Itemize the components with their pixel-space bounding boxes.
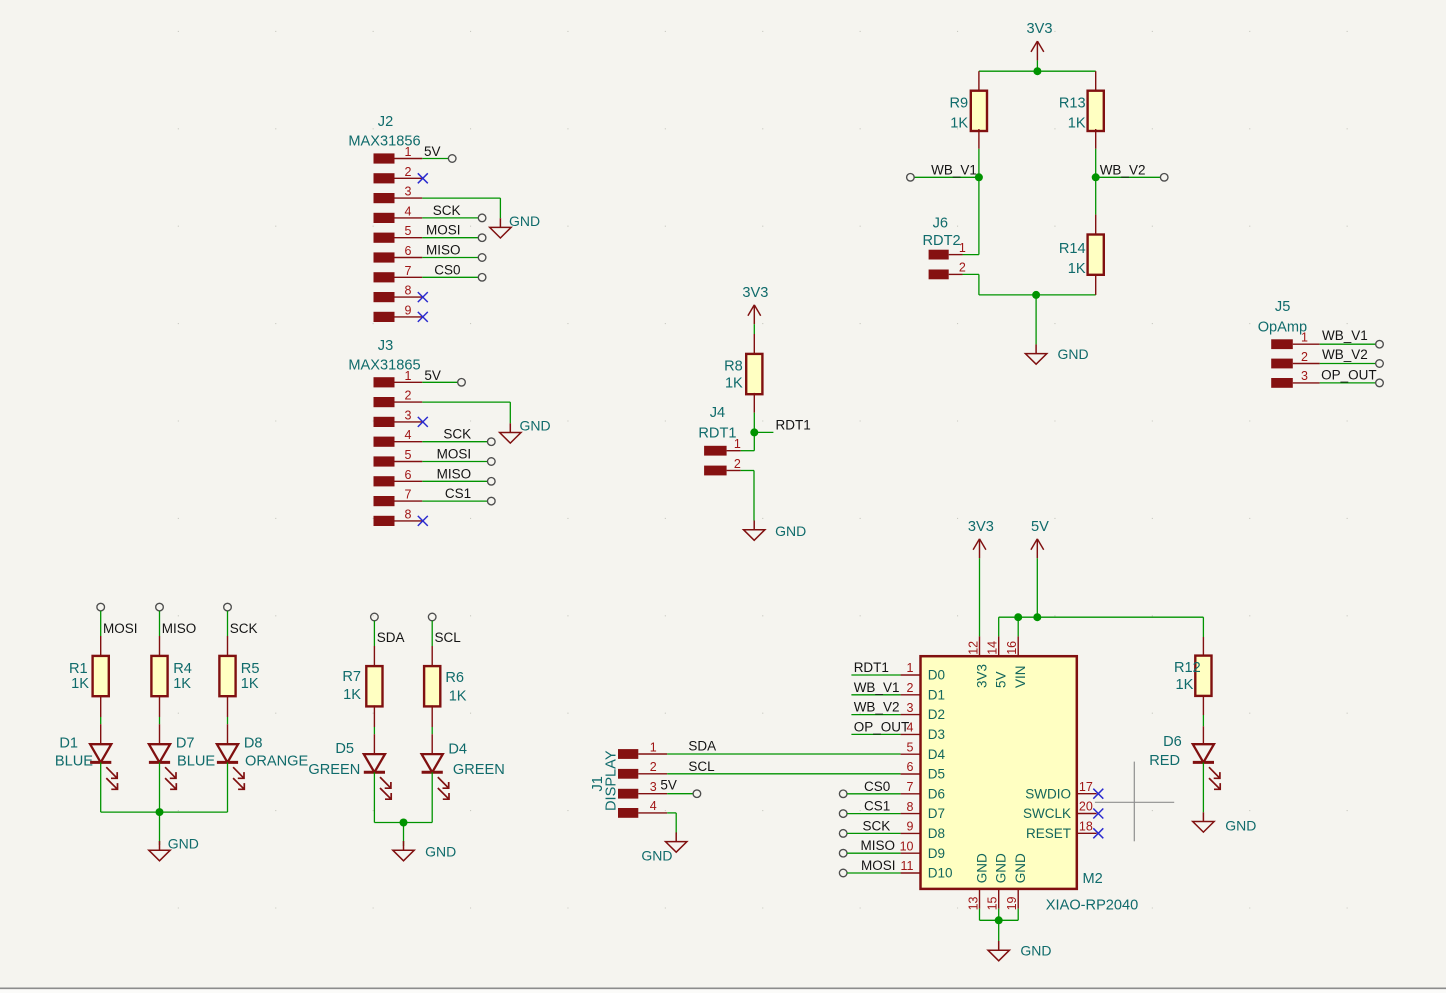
wire bridge top rail bbox=[979, 70, 1096, 72]
resistor R6 bbox=[424, 646, 467, 727]
svg-text:R1: R1 bbox=[69, 661, 88, 677]
svg-text:3: 3 bbox=[405, 408, 412, 422]
wire D4 to GND rail bbox=[431, 772, 433, 822]
svg-text:3V3: 3V3 bbox=[1027, 21, 1053, 37]
svg-text:1K: 1K bbox=[725, 375, 743, 391]
ground GND (J4) bbox=[744, 521, 807, 541]
LED D6 RED bbox=[1149, 726, 1220, 789]
wire R13 to WB_V2 bbox=[1095, 149, 1097, 178]
wire WB_V2 stub bbox=[1096, 176, 1161, 178]
LED D5 GREEN bbox=[308, 734, 391, 799]
wire 5V rail to R12 bbox=[999, 617, 1204, 636]
svg-text:M2: M2 bbox=[1083, 871, 1103, 887]
svg-text:1K: 1K bbox=[173, 676, 191, 692]
unconnected end MOSI stub bbox=[97, 603, 105, 611]
J6 pin2 wire to bottom rail bbox=[949, 274, 979, 295]
unconnected end J3 pin1 bbox=[458, 379, 466, 387]
J5 pin3 wire OP_OUT bbox=[1293, 382, 1376, 384]
svg-text:MOSI: MOSI bbox=[426, 223, 461, 238]
ground GND (D6) bbox=[1193, 812, 1257, 833]
svg-text:GND: GND bbox=[520, 418, 551, 434]
connector J5 bbox=[1258, 299, 1308, 388]
wire D1 to GND rail bbox=[100, 762, 102, 812]
svg-text:GND: GND bbox=[641, 848, 672, 864]
svg-text:GREEN: GREEN bbox=[308, 762, 360, 778]
svg-text:SCK: SCK bbox=[863, 818, 891, 833]
svg-text:MISO: MISO bbox=[437, 466, 472, 481]
svg-text:GND: GND bbox=[994, 853, 1009, 883]
svg-text:5V: 5V bbox=[424, 144, 441, 159]
wire J2 pin5 MOSI bbox=[422, 237, 478, 239]
svg-text:R9: R9 bbox=[949, 96, 968, 112]
wire MOSI stub bbox=[100, 611, 102, 636]
unconnected end J2 pin4 bbox=[478, 214, 486, 222]
svg-text:RDT1: RDT1 bbox=[854, 660, 889, 675]
svg-text:GND: GND bbox=[168, 836, 199, 852]
junction bridge bottom bbox=[1032, 291, 1040, 299]
wire LED GND rail 2 bbox=[374, 822, 432, 824]
svg-text:SWCLK: SWCLK bbox=[1023, 806, 1071, 821]
wire MISO stub bbox=[159, 611, 161, 636]
svg-text:1K: 1K bbox=[71, 676, 89, 692]
svg-text:14: 14 bbox=[986, 641, 1000, 655]
svg-text:13: 13 bbox=[967, 896, 981, 910]
svg-text:CS1: CS1 bbox=[445, 486, 471, 501]
svg-text:2: 2 bbox=[650, 760, 657, 774]
sheet border bottom bbox=[0, 988, 1446, 993]
power 3V3 (M2) bbox=[968, 519, 994, 558]
wire CS0 stub M2.D6 bbox=[839, 790, 900, 798]
resistor R8 bbox=[724, 334, 762, 413]
svg-text:RDT2: RDT2 bbox=[923, 233, 961, 249]
wire J2 pin6 MISO bbox=[422, 257, 478, 259]
unconnected end SDA stub bbox=[371, 613, 379, 621]
svg-text:2: 2 bbox=[1301, 350, 1308, 364]
M2 bottom pins 13 15 19 GND bbox=[967, 853, 1029, 910]
J2 pin stubs bbox=[395, 159, 423, 317]
svg-text:4: 4 bbox=[405, 204, 412, 218]
no-connect J3 pin8 bbox=[418, 516, 428, 526]
svg-text:R7: R7 bbox=[342, 669, 361, 685]
unconnected end SCL stub bbox=[428, 613, 436, 621]
junction M2 GND bbox=[995, 916, 1003, 924]
svg-text:MAX31856: MAX31856 bbox=[348, 134, 420, 150]
power 5V (M2) bbox=[1031, 519, 1049, 558]
svg-text:RDT1: RDT1 bbox=[776, 418, 811, 433]
wire J3 pin2 to GND bbox=[422, 402, 510, 423]
svg-text:WB_V1: WB_V1 bbox=[931, 162, 977, 177]
wire SCK stub bbox=[227, 611, 229, 636]
wire J2 pin7 CS0 bbox=[422, 276, 478, 278]
resistor R5 bbox=[219, 636, 259, 717]
svg-text:D1: D1 bbox=[59, 736, 78, 752]
unconnected end J2 pin7 bbox=[478, 274, 486, 282]
cursor crosshair bbox=[1095, 762, 1174, 842]
wire WB_V1 down to J6 pin1 bbox=[978, 177, 980, 254]
svg-text:GND: GND bbox=[775, 523, 806, 539]
svg-text:SDA: SDA bbox=[377, 630, 405, 645]
unconnected end J3 pin7 bbox=[488, 497, 496, 505]
svg-text:9: 9 bbox=[907, 820, 914, 834]
connector J3 bbox=[348, 338, 420, 526]
svg-text:WB_V2: WB_V2 bbox=[1322, 347, 1368, 362]
ground GND (M2) bbox=[988, 941, 1052, 961]
svg-text:D0: D0 bbox=[928, 668, 945, 683]
wire MISO stub M2.D9 bbox=[839, 849, 900, 857]
svg-text:R6: R6 bbox=[445, 670, 464, 686]
LED D8 ORANGE bbox=[217, 724, 309, 789]
J4 pin stubs bbox=[727, 451, 741, 471]
MCU module M2 XIAO-RP2040 body bbox=[921, 656, 1139, 913]
wire R6 to D4 bbox=[431, 727, 433, 734]
wire D8 to GND rail bbox=[227, 762, 229, 812]
svg-text:6: 6 bbox=[405, 468, 412, 482]
svg-text:MOSI: MOSI bbox=[861, 858, 896, 873]
svg-text:SWDIO: SWDIO bbox=[1025, 786, 1071, 801]
svg-text:8: 8 bbox=[405, 507, 412, 521]
wire J3 pin7 CS1 bbox=[422, 500, 487, 502]
wire MOSI stub M2.D10 bbox=[839, 869, 900, 877]
svg-text:8: 8 bbox=[907, 800, 914, 814]
svg-text:5V: 5V bbox=[994, 671, 1009, 688]
svg-text:D8: D8 bbox=[244, 736, 263, 752]
svg-text:RESET: RESET bbox=[1026, 826, 1071, 841]
J4 pin2 wire to GND bbox=[741, 471, 754, 521]
svg-text:MOSI: MOSI bbox=[437, 447, 472, 462]
wire J2 pin4 SCK bbox=[422, 217, 478, 219]
unconnected end WB_V2 bbox=[1160, 174, 1168, 182]
svg-text:3V3: 3V3 bbox=[968, 519, 994, 535]
svg-text:5: 5 bbox=[405, 224, 412, 238]
svg-text:DISPLAY: DISPLAY bbox=[603, 750, 619, 811]
svg-text:CS0: CS0 bbox=[434, 262, 460, 277]
svg-text:6: 6 bbox=[907, 760, 914, 774]
svg-text:R14: R14 bbox=[1059, 241, 1086, 257]
wire bridge bottom rail bbox=[979, 294, 1096, 296]
ground GND (D1 D7 D8) bbox=[149, 836, 199, 861]
svg-text:R12: R12 bbox=[1174, 660, 1201, 676]
svg-text:J6: J6 bbox=[933, 216, 948, 232]
wire M2 pin16 to rail bbox=[1017, 617, 1019, 636]
resistor R7 bbox=[342, 646, 382, 727]
no-connect J3 pin3 bbox=[418, 417, 428, 427]
wire RDT1 label stub bbox=[754, 431, 773, 433]
junction LED GND rail 2 bbox=[400, 819, 408, 827]
svg-text:D6: D6 bbox=[1163, 734, 1182, 750]
M2 right pins SWDIO SWCLK RESET bbox=[1023, 780, 1097, 841]
wire CS1 stub M2.D7 bbox=[839, 810, 900, 818]
svg-text:1K: 1K bbox=[241, 676, 259, 692]
svg-text:5V: 5V bbox=[424, 368, 441, 383]
wire rail to GND (LEDs) bbox=[159, 812, 161, 845]
svg-text:7: 7 bbox=[405, 488, 412, 502]
J1 pin2 wire SCL to M2.D5 bbox=[638, 773, 900, 775]
wire bottom rail to GND bbox=[1035, 295, 1037, 345]
svg-text:SCK: SCK bbox=[443, 427, 471, 442]
svg-text:MISO: MISO bbox=[426, 243, 461, 258]
svg-text:D1: D1 bbox=[928, 687, 945, 702]
svg-text:GREEN: GREEN bbox=[453, 762, 505, 778]
ground GND (D5 D4) bbox=[393, 841, 456, 861]
wire R9 to WB_V1 bbox=[978, 149, 980, 178]
ground GND (J3) bbox=[500, 418, 551, 443]
resistor R4 bbox=[151, 636, 191, 717]
M2 top pins 12 14 16 bbox=[967, 636, 1029, 688]
wire rail2 to GND bbox=[403, 823, 405, 847]
svg-text:CS1: CS1 bbox=[864, 799, 890, 814]
svg-text:3: 3 bbox=[1301, 369, 1308, 383]
no-connect RESET bbox=[1093, 828, 1103, 838]
unconnected end SCK stub bbox=[224, 603, 232, 611]
svg-text:D4: D4 bbox=[448, 742, 467, 758]
J3 pin stubs bbox=[395, 382, 423, 521]
J1 pin4 wire to GND bbox=[638, 813, 676, 834]
svg-text:BLUE: BLUE bbox=[177, 753, 215, 769]
resistor R1 bbox=[69, 636, 109, 717]
wire OP_OUT to M2.D3 bbox=[851, 733, 900, 735]
no-connect SWCLK bbox=[1093, 809, 1103, 819]
unconnected end J5 pin2 bbox=[1376, 360, 1384, 368]
svg-text:1: 1 bbox=[734, 437, 741, 451]
svg-text:MAX31865: MAX31865 bbox=[348, 357, 420, 373]
power 3V3 (bridge) bbox=[1027, 21, 1053, 71]
svg-text:1K: 1K bbox=[1068, 261, 1086, 277]
ground GND (J2) bbox=[490, 213, 540, 238]
svg-text:MISO: MISO bbox=[162, 621, 197, 636]
no-connect J2 pin9 bbox=[418, 312, 428, 322]
svg-text:SCK: SCK bbox=[230, 621, 258, 636]
wire 5V down to rail bbox=[1036, 558, 1038, 617]
svg-text:7: 7 bbox=[907, 780, 914, 794]
svg-text:1: 1 bbox=[1301, 331, 1308, 345]
wire WB_V1 to M2.D1 bbox=[851, 694, 900, 696]
svg-text:2: 2 bbox=[405, 389, 412, 403]
svg-text:3: 3 bbox=[650, 780, 657, 794]
svg-text:2: 2 bbox=[907, 681, 914, 695]
LED D4 GREEN bbox=[422, 734, 505, 799]
unconnected end J3 pin5 bbox=[488, 458, 496, 466]
wire D5 to GND rail bbox=[373, 772, 375, 822]
connector J1 DISPLAY bbox=[590, 740, 657, 818]
svg-text:SCL: SCL bbox=[435, 630, 462, 645]
wire SCL stub bbox=[431, 621, 433, 646]
unconnected end J2 pin6 bbox=[478, 254, 486, 262]
svg-text:D5: D5 bbox=[335, 741, 354, 757]
svg-text:GND: GND bbox=[1013, 853, 1028, 883]
svg-text:D10: D10 bbox=[928, 866, 953, 881]
svg-text:2: 2 bbox=[734, 457, 741, 471]
svg-text:6: 6 bbox=[405, 244, 412, 258]
J1 pin3 wire 5V bbox=[638, 793, 693, 795]
wire R7 to D5 bbox=[373, 727, 375, 734]
svg-text:2: 2 bbox=[959, 261, 966, 275]
junction RDT1 node bbox=[750, 428, 758, 436]
wire R5 to D8 bbox=[227, 717, 229, 724]
wire R4 to D7 bbox=[159, 717, 161, 724]
junction rail pin16 bbox=[1014, 613, 1022, 621]
resistor R14 bbox=[1059, 177, 1104, 295]
unconnected end J2 pin5 bbox=[478, 234, 486, 242]
svg-text:D7: D7 bbox=[176, 736, 195, 752]
wire rail to R12 bbox=[1202, 617, 1204, 637]
svg-text:1K: 1K bbox=[950, 116, 968, 132]
svg-text:9: 9 bbox=[405, 303, 412, 317]
wire J2 pin1 5V bbox=[422, 158, 448, 160]
svg-text:16: 16 bbox=[1005, 641, 1019, 655]
wire SCK stub M2.D8 bbox=[839, 830, 900, 838]
svg-text:1K: 1K bbox=[1068, 116, 1086, 132]
svg-text:17: 17 bbox=[1079, 780, 1093, 794]
svg-text:3: 3 bbox=[405, 185, 412, 199]
svg-text:R8: R8 bbox=[724, 358, 743, 374]
svg-text:15: 15 bbox=[986, 896, 1000, 910]
resistor R13 bbox=[1059, 71, 1104, 149]
connector J2 bbox=[348, 114, 420, 322]
svg-text:8: 8 bbox=[405, 284, 412, 298]
unconnected end J2 pin1 bbox=[448, 155, 456, 163]
svg-text:1: 1 bbox=[959, 241, 966, 255]
J1 pin1 wire SDA to M2.D4 bbox=[638, 753, 900, 755]
svg-text:R5: R5 bbox=[241, 661, 260, 677]
svg-text:GND: GND bbox=[1225, 818, 1256, 834]
svg-text:RED: RED bbox=[1149, 753, 1180, 769]
svg-text:GND: GND bbox=[1058, 346, 1089, 362]
wire RDT1 to M2.D0 bbox=[851, 674, 900, 676]
svg-text:ORANGE: ORANGE bbox=[245, 753, 309, 769]
junction bridge top bbox=[1033, 67, 1041, 75]
svg-text:SCK: SCK bbox=[433, 203, 461, 218]
J6 pin1 wire bbox=[949, 254, 979, 256]
svg-text:R4: R4 bbox=[173, 661, 192, 677]
svg-text:D4: D4 bbox=[928, 747, 946, 762]
svg-text:3V3: 3V3 bbox=[742, 285, 768, 301]
svg-text:11: 11 bbox=[901, 859, 914, 873]
svg-text:5: 5 bbox=[907, 740, 914, 754]
svg-text:J2: J2 bbox=[378, 114, 393, 130]
unconnected end J3 pin4 bbox=[488, 438, 496, 446]
resistor R9 bbox=[949, 71, 987, 149]
wire J3 pin4 SCK bbox=[422, 441, 487, 443]
LED D1 BLUE bbox=[55, 724, 118, 789]
ground GND (bridge) bbox=[1025, 344, 1088, 364]
wire D6 to GND bbox=[1202, 762, 1204, 812]
svg-text:2: 2 bbox=[405, 165, 412, 179]
svg-text:D6: D6 bbox=[928, 786, 945, 801]
svg-text:10: 10 bbox=[900, 839, 914, 853]
wire LED GND rail bbox=[101, 811, 228, 813]
junction WB_V2 bbox=[1092, 173, 1100, 181]
wire R1 to D1 bbox=[100, 717, 102, 724]
no-connect J2 pin2 bbox=[418, 173, 428, 183]
svg-text:SCL: SCL bbox=[688, 759, 715, 774]
svg-text:D2: D2 bbox=[928, 707, 945, 722]
svg-text:J5: J5 bbox=[1275, 299, 1290, 315]
svg-text:7: 7 bbox=[405, 264, 412, 278]
wire M2 GND down bbox=[998, 920, 1000, 941]
svg-text:3: 3 bbox=[907, 701, 914, 715]
wire node to J4 pin1 bbox=[741, 432, 755, 450]
svg-text:18: 18 bbox=[1079, 820, 1093, 834]
svg-text:RDT1: RDT1 bbox=[698, 425, 736, 441]
svg-text:1: 1 bbox=[650, 740, 657, 754]
wire D7 to GND rail bbox=[159, 762, 161, 812]
svg-text:OpAmp: OpAmp bbox=[1258, 320, 1307, 336]
junction WB_V1 bbox=[975, 173, 983, 181]
unconnected end WB_V1 bbox=[907, 174, 915, 182]
svg-text:5: 5 bbox=[405, 448, 412, 462]
wire M2 bottom GND bus bbox=[980, 909, 1019, 921]
svg-text:XIAO-RP2040: XIAO-RP2040 bbox=[1046, 898, 1138, 914]
svg-text:SDA: SDA bbox=[688, 738, 716, 753]
wire R8 to RDT1 node bbox=[753, 413, 755, 433]
svg-text:4: 4 bbox=[405, 428, 412, 442]
svg-text:MOSI: MOSI bbox=[103, 621, 138, 636]
svg-text:OP_OUT: OP_OUT bbox=[1321, 368, 1377, 383]
unconnected end J5 pin3 bbox=[1376, 379, 1384, 387]
svg-text:WB_V2: WB_V2 bbox=[854, 700, 900, 715]
wire R12 to D6 bbox=[1202, 715, 1204, 726]
no-connect SWDIO bbox=[1093, 789, 1103, 799]
svg-text:GND: GND bbox=[509, 213, 540, 229]
unconnected end MISO stub bbox=[156, 603, 164, 611]
wire 3V3 to M2 pin12 bbox=[979, 558, 981, 636]
wire WB_V1 stub bbox=[914, 176, 979, 178]
unconnected end J5 pin1 bbox=[1376, 340, 1384, 348]
svg-text:5V: 5V bbox=[1031, 519, 1049, 535]
svg-text:J3: J3 bbox=[378, 338, 393, 354]
svg-text:WB_V1: WB_V1 bbox=[854, 680, 900, 695]
svg-text:19: 19 bbox=[1005, 896, 1019, 910]
wire J3 pin5 MOSI bbox=[422, 461, 487, 463]
svg-text:WB_V1: WB_V1 bbox=[1322, 328, 1368, 343]
ground GND (J1) bbox=[641, 832, 687, 863]
svg-text:D8: D8 bbox=[928, 826, 945, 841]
resistor R12 bbox=[1174, 637, 1211, 715]
wire J2 pin3 to GND bbox=[422, 198, 500, 218]
connector J4 bbox=[698, 405, 740, 475]
wire J3 pin1 5V bbox=[422, 381, 458, 383]
svg-text:D7: D7 bbox=[928, 806, 945, 821]
svg-text:BLUE: BLUE bbox=[55, 753, 93, 769]
LED D7 BLUE bbox=[149, 724, 215, 789]
wire SDA stub bbox=[373, 621, 375, 646]
no-connect J2 pin8 bbox=[418, 292, 428, 302]
svg-text:GND: GND bbox=[1020, 943, 1051, 959]
svg-text:D9: D9 bbox=[928, 846, 945, 861]
junction rail 5V bbox=[1033, 613, 1041, 621]
svg-text:D5: D5 bbox=[928, 767, 945, 782]
junction LED GND rail bbox=[156, 808, 164, 816]
svg-text:1K: 1K bbox=[449, 688, 467, 704]
svg-text:3V3: 3V3 bbox=[974, 664, 989, 688]
svg-text:12: 12 bbox=[967, 641, 981, 655]
power 3V3 (J4 block) bbox=[742, 285, 768, 334]
svg-text:4: 4 bbox=[650, 799, 657, 813]
unconnected end J3 pin6 bbox=[488, 478, 496, 486]
J5 pin1 wire WB_V1 bbox=[1293, 343, 1376, 345]
svg-text:1K: 1K bbox=[343, 687, 361, 703]
svg-text:GND: GND bbox=[974, 853, 989, 883]
wire WB_V2 to M2.D2 bbox=[851, 714, 900, 716]
svg-text:J4: J4 bbox=[710, 405, 725, 421]
svg-text:WB_V2: WB_V2 bbox=[1100, 162, 1146, 177]
wire J3 pin6 MISO bbox=[422, 480, 487, 482]
unconnected end J1 pin3 bbox=[693, 790, 701, 798]
svg-text:CS0: CS0 bbox=[864, 779, 890, 794]
connector J6 bbox=[923, 216, 966, 280]
svg-text:D3: D3 bbox=[928, 727, 945, 742]
svg-text:MISO: MISO bbox=[860, 838, 895, 853]
